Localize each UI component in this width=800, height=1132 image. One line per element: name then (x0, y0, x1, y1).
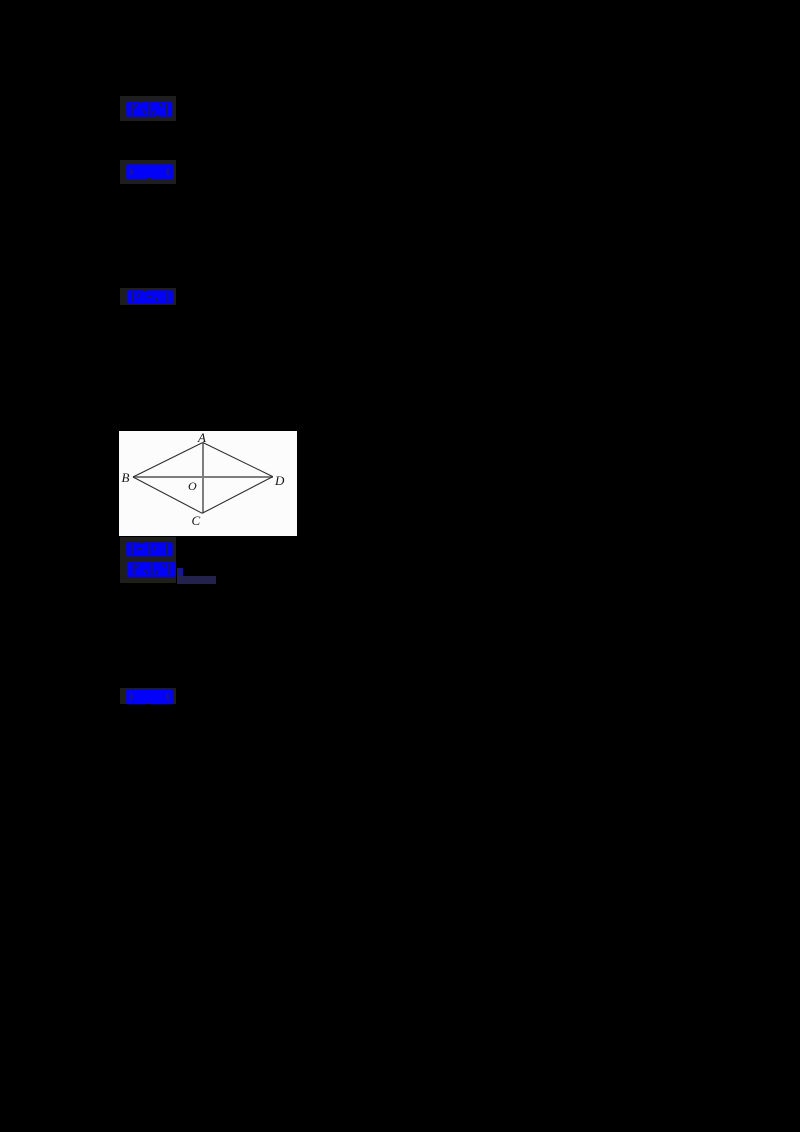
side CD (202, 477, 273, 514)
svg-text:A: A (197, 431, 206, 445)
side BC (133, 477, 202, 513)
tag box 4 (two lines: 【考点】 / 【分析】) (120, 537, 176, 583)
side AB (133, 443, 203, 478)
svg-text:C: C (192, 513, 201, 528)
small dark-blue period after the tag (177, 568, 183, 576)
svg-text:O: O (188, 479, 197, 493)
diagonal BD (133, 476, 273, 478)
tag box 5 (blue 【解答】 label, near solid) (120, 688, 176, 704)
diagonal AC (202, 443, 204, 514)
svg-text:B: B (122, 470, 130, 485)
svg-text:D: D (274, 473, 285, 488)
dark navy strip (dim text fragment) (177, 576, 216, 583)
tag box 2 (blue 【解答】 label, near solid) (120, 160, 176, 184)
figure panel (white) : rhombus ABCD with diagonals meeting at O (119, 431, 297, 536)
tag box 3 (blue 【点评】 label) (120, 288, 176, 306)
tag box 1 (blue 【分析】 label on dark highlight) (120, 96, 177, 121)
side DA (203, 443, 273, 477)
